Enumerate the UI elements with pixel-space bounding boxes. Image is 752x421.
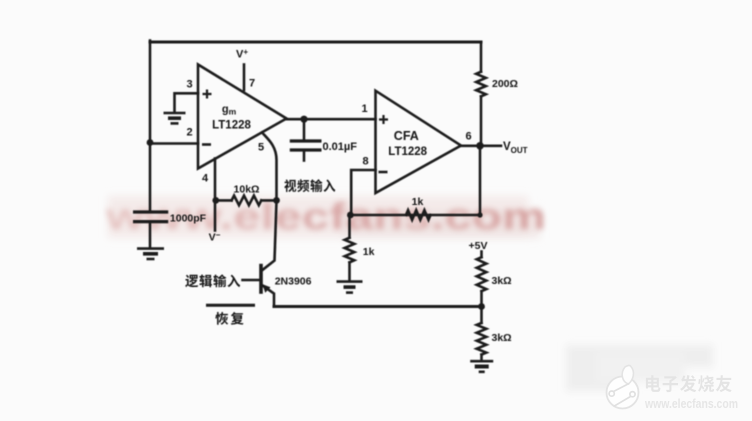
op2 plus [379, 115, 388, 124]
wire V- stub [214, 200, 217, 230]
op1 minus [202, 143, 211, 146]
node divider [478, 303, 485, 310]
label logic input (CJK) [185, 274, 240, 287]
elecfans logo CJK text [646, 375, 732, 392]
resistor 3k lower [477, 323, 487, 355]
wire 10k right lead [261, 199, 276, 202]
resistor 1k vertical [345, 238, 355, 263]
svg-text:5: 5 [258, 142, 264, 154]
wire output node down to feedback row [350, 146, 480, 215]
svg-text:3kΩ: 3kΩ [492, 275, 512, 287]
wire op1 pin7 V+ [243, 65, 246, 91]
svg-text:1: 1 [361, 103, 367, 115]
wire 200ohm bottom to output node [480, 96, 483, 145]
op2 minus [379, 171, 388, 174]
svg-text:+5V: +5V [469, 240, 488, 252]
elecfans logo mark [607, 365, 639, 408]
overline of huifu [206, 304, 255, 307]
svg-text:3kΩ: 3kΩ [492, 332, 512, 344]
wire 10k left lead [216, 199, 232, 202]
ground below 1000pF [137, 247, 164, 250]
svg-text:LT1228: LT1228 [388, 146, 427, 158]
wire op1 output to op2 pin1 [287, 118, 376, 121]
svg-text:1k: 1k [363, 246, 375, 258]
capacitor C1 1000pF plates [135, 210, 167, 213]
op-amp U1 LT1228 gm triangle [198, 65, 287, 169]
wire op1 pin4 [214, 159, 217, 201]
svg-text:1k: 1k [412, 196, 424, 208]
scan artifact blobs [108, 196, 713, 391]
svg-text:2: 2 [186, 127, 192, 139]
wire 200ohm top [480, 42, 483, 72]
wire transistor base lead [243, 279, 260, 282]
node 10k left [212, 197, 219, 204]
svg-text:0.01µF: 0.01µF [323, 141, 358, 153]
svg-text:www.elecfans.com: www.elecfans.com [644, 397, 738, 411]
svg-text:1000pF: 1000pF [170, 213, 207, 225]
svg-text:CFA: CFA [394, 129, 419, 143]
svg-text:8: 8 [362, 156, 368, 168]
wire +5V stub [480, 252, 483, 258]
node feedback left [347, 212, 354, 219]
wire to op1 inverting input [150, 142, 198, 145]
wire top rail [150, 41, 481, 44]
resistor 1k feedback horizontal [406, 210, 431, 220]
ground below lower 3k [470, 360, 493, 363]
wire 3k2 to ground [480, 355, 483, 361]
ground below 1k [337, 280, 363, 283]
wire op2 pin8 [351, 170, 375, 215]
svg-text:10kΩ: 10kΩ [234, 184, 260, 196]
svg-text:4: 4 [202, 173, 209, 185]
ground at op1 pin3 [164, 112, 186, 115]
resistor 3k upper [477, 257, 487, 291]
capacitor C2 0.01uF plates [291, 139, 320, 142]
op-amp U2 LT1228 CFA triangle [376, 91, 462, 193]
wire 3k to node [480, 291, 483, 323]
label restore (CJK) [215, 312, 243, 325]
wire emitter down [262, 285, 274, 307]
wire collector vertical [262, 200, 277, 270]
wire op1 pin5 curve [262, 133, 277, 201]
svg-text:2N3906: 2N3906 [275, 276, 312, 288]
node at left wire / pin2 [147, 139, 154, 146]
svg-text:7: 7 [249, 78, 255, 90]
resistor 200 vertical [476, 72, 486, 97]
node op1 output [300, 116, 307, 123]
node 10k right [273, 197, 280, 204]
svg-text:3: 3 [186, 79, 192, 91]
wire left vertical [149, 41, 152, 213]
wire emitter rail to divider node [274, 305, 482, 308]
label video input (CJK) [284, 179, 335, 192]
svg-text:LT1228: LT1228 [212, 120, 251, 132]
transistor Q1 2N3906 bar [259, 266, 263, 292]
wire cap 0.01uF stub top [303, 119, 306, 139]
resistor 10k horizontal [232, 196, 262, 206]
op1 plus [203, 90, 212, 99]
node feedback right corner [477, 212, 482, 217]
wire op2 output [461, 145, 501, 148]
wire 1k vert top [348, 215, 351, 238]
svg-text:200Ω: 200Ω [492, 78, 518, 90]
node vout [476, 142, 484, 150]
red watermark www.elecfans.com [105, 196, 546, 237]
wire cap 0.01uF stub bottom (video input terminal) [303, 152, 306, 161]
wire op1 pin3 to ground [175, 93, 199, 111]
svg-text:6: 6 [465, 131, 471, 143]
transistor emitter arrow [263, 284, 271, 293]
wire 1k vert bottom [348, 262, 351, 281]
